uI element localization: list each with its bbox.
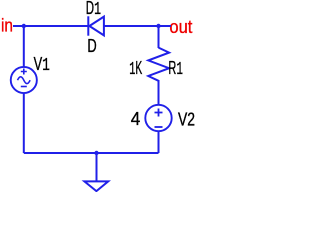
wire: in node down to V1 [23,26,25,67]
wire: diode anode to out [104,25,171,27]
wire: in to diode cathode [13,25,88,27]
diode D1 cathode bar [87,16,89,35]
resistor R1 zigzag [148,48,169,81]
wire: resistor to V2 [158,80,160,105]
V2 minus sign [155,126,163,128]
svg-text:1K: 1K [129,58,142,80]
svg-text:out: out [169,17,192,37]
ground symbol [84,181,108,191]
wire: out node down to resistor [158,26,160,48]
wire: ground stem [96,153,98,181]
svg-text:in: in [1,16,13,36]
diode D1 triangle [89,17,104,36]
node out junction [156,24,160,28]
V1 sine wave [18,77,31,84]
V1 minus sign [21,86,27,88]
svg-text:D: D [87,36,96,56]
V2 plus sign [155,109,163,117]
svg-text:R1: R1 [168,58,183,80]
node ground junction [94,151,98,155]
voltage source V1 circle [11,67,37,93]
V1 plus sign [21,69,27,75]
svg-text:V2: V2 [178,110,195,130]
wire: V1 down to bottom rail [23,93,25,153]
svg-text:V1: V1 [34,54,50,76]
svg-text:D1: D1 [86,0,101,20]
node in junction [22,24,26,28]
voltage source V2 circle [145,105,171,131]
wire: V2 down to bottom rail [158,131,160,153]
wire: bottom rail [24,152,159,154]
svg-text:4: 4 [131,109,141,129]
